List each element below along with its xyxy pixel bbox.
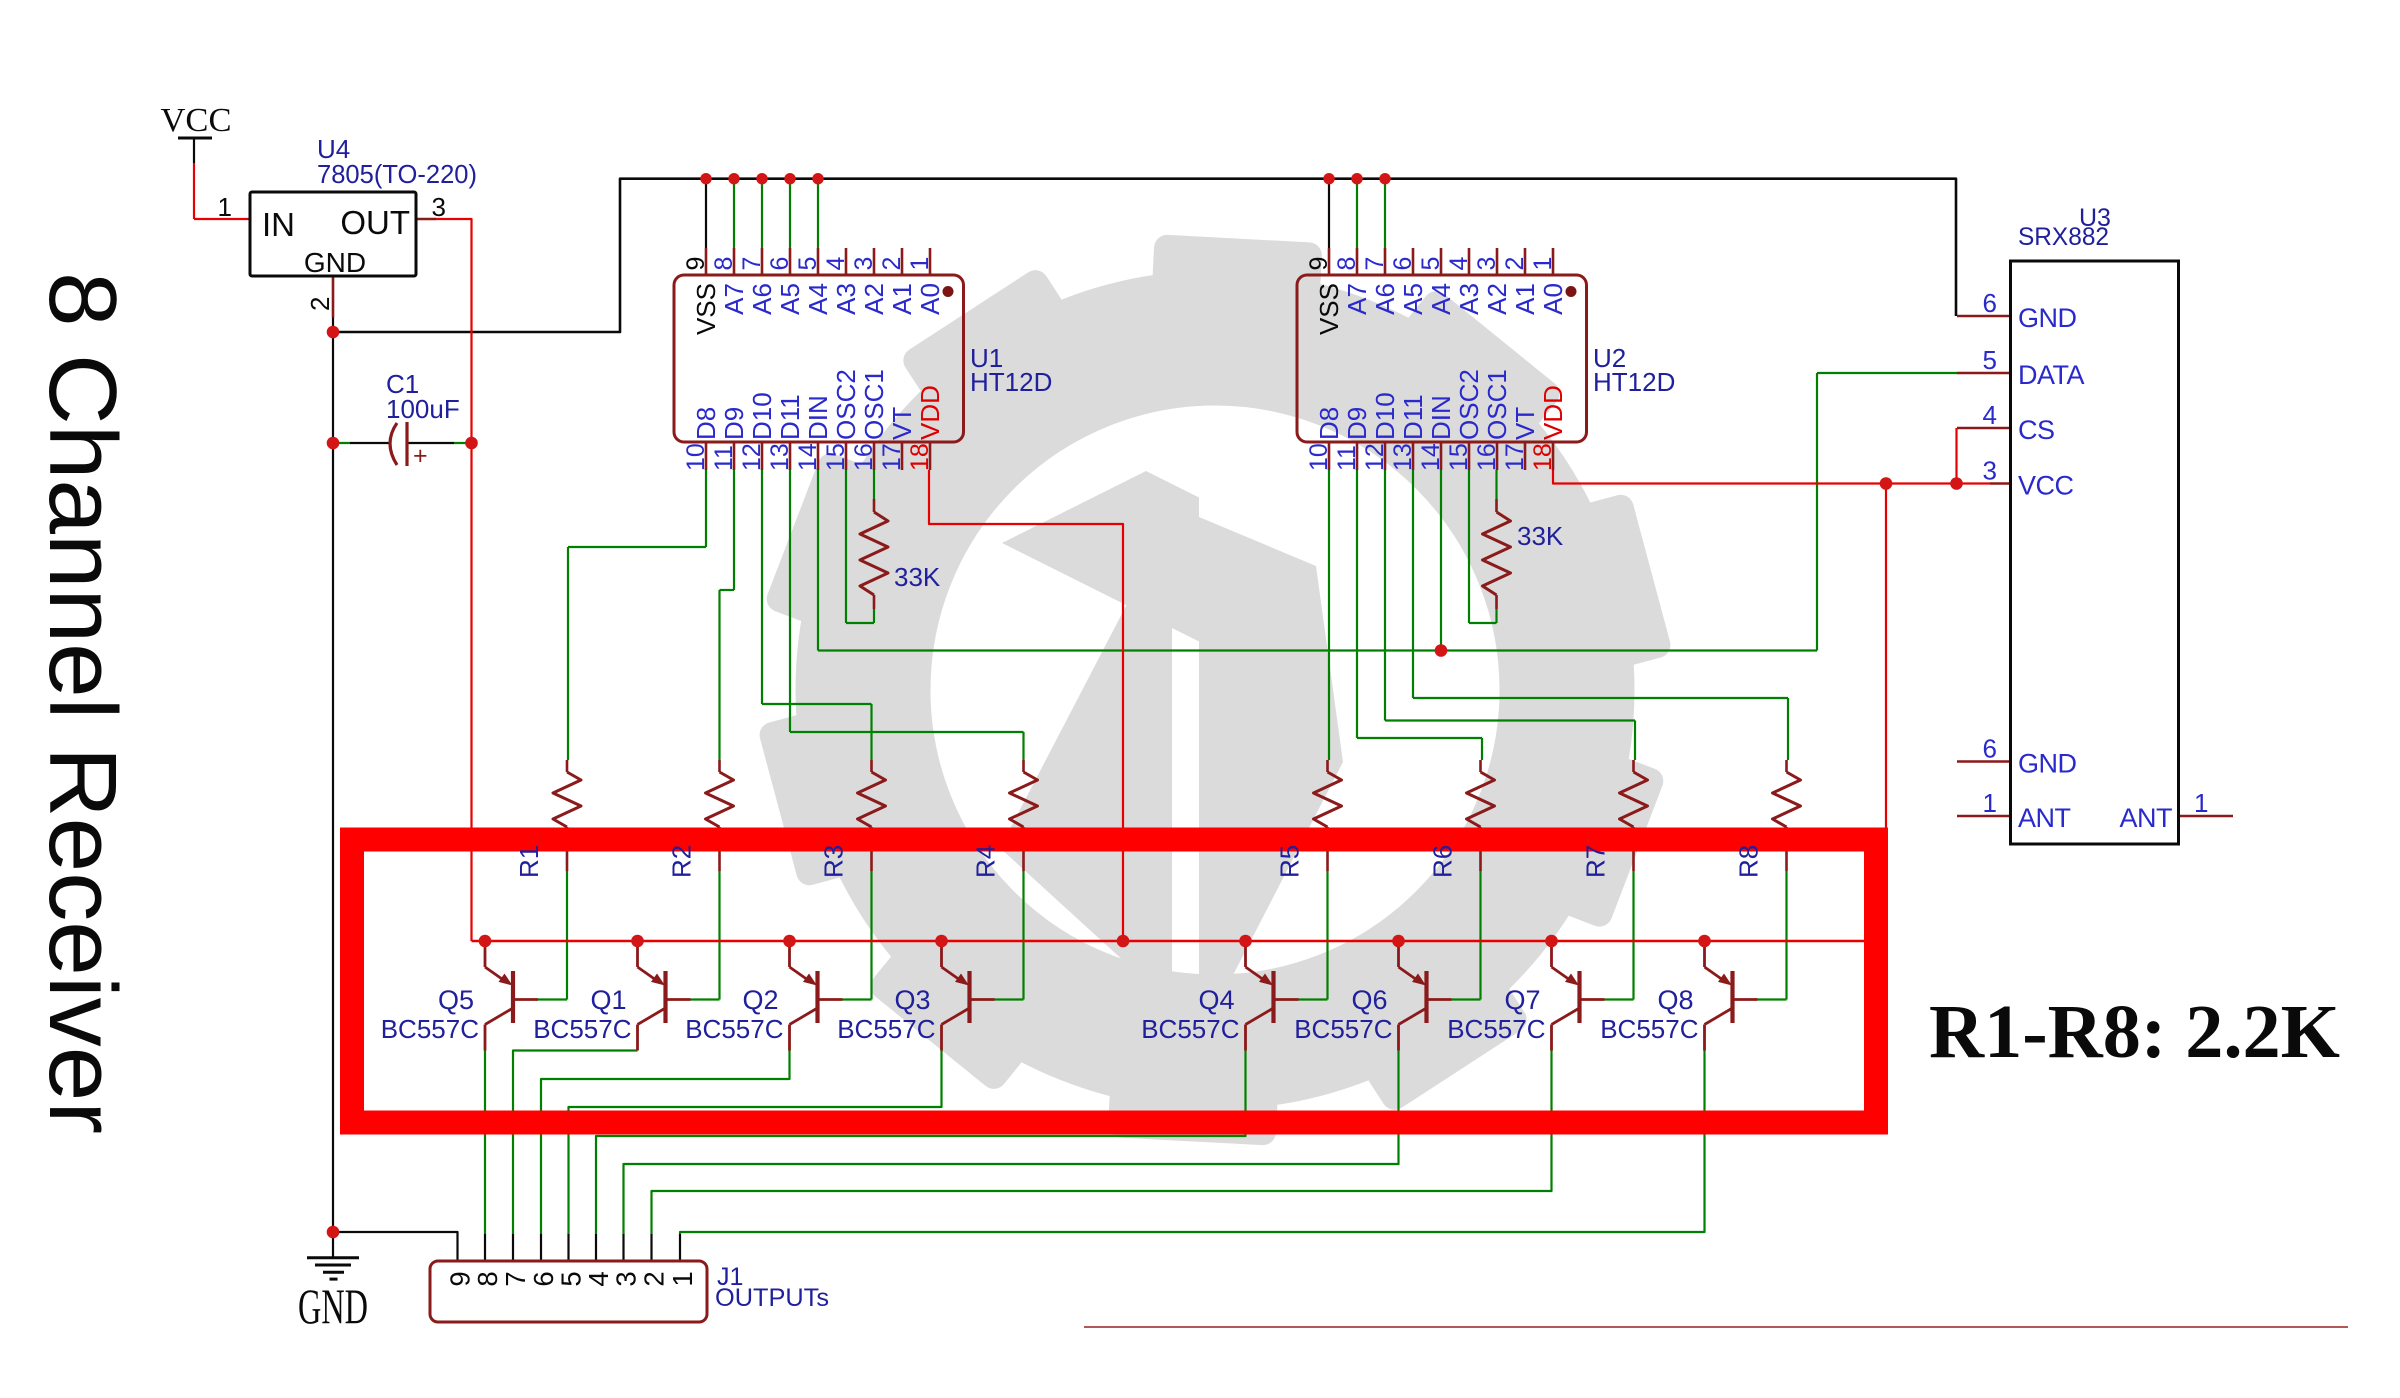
svg-text:Q6: Q6 bbox=[1351, 985, 1387, 1015]
svg-text:13: 13 bbox=[1389, 443, 1417, 471]
svg-text:4: 4 bbox=[1983, 400, 1997, 430]
svg-text:VCC: VCC bbox=[2018, 471, 2074, 501]
svg-text:OSC2: OSC2 bbox=[831, 369, 861, 440]
svg-text:7805(TO-220): 7805(TO-220) bbox=[317, 159, 477, 189]
svg-text:8 Channel Receiver: 8 Channel Receiver bbox=[29, 272, 136, 1134]
svg-text:D11: D11 bbox=[1398, 394, 1428, 440]
svg-text:1: 1 bbox=[1529, 257, 1557, 271]
svg-text:A6: A6 bbox=[747, 283, 777, 315]
svg-text:3: 3 bbox=[432, 192, 446, 222]
svg-text:18: 18 bbox=[906, 443, 934, 471]
svg-text:A3: A3 bbox=[1454, 283, 1484, 315]
svg-text:5: 5 bbox=[794, 257, 822, 271]
svg-text:12: 12 bbox=[1361, 443, 1389, 471]
svg-text:2: 2 bbox=[639, 1271, 670, 1286]
svg-text:1: 1 bbox=[218, 192, 232, 222]
svg-text:16: 16 bbox=[850, 443, 878, 471]
svg-text:GND: GND bbox=[298, 1278, 368, 1334]
svg-text:33K: 33K bbox=[1517, 521, 1564, 551]
svg-text:8: 8 bbox=[710, 257, 738, 271]
svg-text:ANT: ANT bbox=[2018, 803, 2071, 833]
svg-text:A6: A6 bbox=[1370, 283, 1400, 315]
svg-text:A7: A7 bbox=[1342, 283, 1372, 315]
svg-text:1: 1 bbox=[2194, 788, 2208, 818]
svg-text:6: 6 bbox=[1389, 257, 1417, 271]
svg-text:D9: D9 bbox=[1342, 407, 1372, 440]
svg-text:A0: A0 bbox=[1538, 283, 1568, 315]
svg-text:A4: A4 bbox=[1426, 283, 1456, 315]
svg-text:16: 16 bbox=[1473, 443, 1501, 471]
svg-text:IN: IN bbox=[262, 206, 295, 243]
svg-text:R4: R4 bbox=[971, 845, 1001, 878]
svg-text:14: 14 bbox=[794, 443, 822, 471]
svg-text:10: 10 bbox=[682, 443, 710, 471]
svg-text:3: 3 bbox=[611, 1271, 642, 1286]
svg-text:R3: R3 bbox=[819, 845, 849, 878]
svg-text:HT12D: HT12D bbox=[970, 367, 1052, 397]
svg-text:A2: A2 bbox=[859, 283, 889, 315]
svg-text:Q8: Q8 bbox=[1657, 985, 1693, 1015]
svg-text:GND: GND bbox=[2018, 303, 2077, 333]
svg-text:A5: A5 bbox=[1398, 283, 1428, 315]
svg-text:R5: R5 bbox=[1275, 845, 1305, 878]
svg-text:HT12D: HT12D bbox=[1593, 367, 1675, 397]
svg-text:12: 12 bbox=[738, 443, 766, 471]
svg-text:A1: A1 bbox=[887, 283, 917, 315]
svg-text:Q1: Q1 bbox=[590, 985, 626, 1015]
svg-text:DATA: DATA bbox=[2018, 360, 2084, 390]
svg-text:15: 15 bbox=[1445, 443, 1473, 471]
svg-text:2: 2 bbox=[878, 257, 906, 271]
svg-text:17: 17 bbox=[1501, 443, 1529, 471]
svg-text:2: 2 bbox=[305, 297, 335, 311]
svg-text:6: 6 bbox=[1983, 734, 1997, 764]
svg-text:3: 3 bbox=[1983, 456, 1997, 486]
svg-text:D8: D8 bbox=[1314, 407, 1344, 440]
svg-text:2: 2 bbox=[1501, 257, 1529, 271]
svg-text:D8: D8 bbox=[691, 407, 721, 440]
svg-text:OSC2: OSC2 bbox=[1454, 369, 1484, 440]
svg-text:Q4: Q4 bbox=[1198, 985, 1234, 1015]
svg-text:1: 1 bbox=[667, 1271, 698, 1286]
svg-text:VDD: VDD bbox=[915, 385, 945, 440]
svg-text:6: 6 bbox=[766, 257, 794, 271]
svg-text:A3: A3 bbox=[831, 283, 861, 315]
svg-text:7: 7 bbox=[500, 1271, 531, 1286]
svg-text:7: 7 bbox=[1361, 257, 1389, 271]
svg-text:A2: A2 bbox=[1482, 283, 1512, 315]
svg-text:11: 11 bbox=[1333, 445, 1361, 471]
svg-text:DIN: DIN bbox=[1426, 395, 1456, 440]
svg-text:11: 11 bbox=[710, 445, 738, 471]
svg-text:R6: R6 bbox=[1428, 845, 1458, 878]
svg-text:A1: A1 bbox=[1510, 283, 1540, 315]
svg-text:6: 6 bbox=[528, 1271, 559, 1286]
svg-text:8: 8 bbox=[1333, 257, 1361, 271]
svg-text:3: 3 bbox=[1473, 257, 1501, 271]
svg-text:DIN: DIN bbox=[803, 395, 833, 440]
svg-text:R1-R8: 2.2K: R1-R8: 2.2K bbox=[1929, 990, 2340, 1074]
svg-text:BC557C: BC557C bbox=[1141, 1014, 1239, 1044]
svg-text:6: 6 bbox=[1983, 288, 1997, 318]
svg-text:Q7: Q7 bbox=[1504, 985, 1540, 1015]
svg-text:VDD: VDD bbox=[1538, 385, 1568, 440]
svg-text:7: 7 bbox=[738, 257, 766, 271]
svg-text:BC557C: BC557C bbox=[837, 1014, 935, 1044]
svg-text:CS: CS bbox=[2018, 415, 2055, 445]
svg-text:D11: D11 bbox=[775, 394, 805, 440]
svg-text:BC557C: BC557C bbox=[685, 1014, 783, 1044]
svg-text:BC557C: BC557C bbox=[1294, 1014, 1392, 1044]
svg-text:VT: VT bbox=[1510, 407, 1540, 440]
svg-text:14: 14 bbox=[1417, 443, 1445, 471]
svg-text:4: 4 bbox=[822, 257, 850, 271]
svg-text:A0: A0 bbox=[915, 283, 945, 315]
svg-text:8: 8 bbox=[472, 1271, 503, 1286]
svg-text:13: 13 bbox=[766, 443, 794, 471]
svg-text:OSC1: OSC1 bbox=[1482, 369, 1512, 440]
svg-text:A5: A5 bbox=[775, 283, 805, 315]
svg-text:18: 18 bbox=[1529, 443, 1557, 471]
svg-text:R7: R7 bbox=[1581, 845, 1611, 878]
svg-text:SRX882: SRX882 bbox=[2018, 223, 2109, 251]
svg-text:BC557C: BC557C bbox=[1447, 1014, 1545, 1044]
svg-text:15: 15 bbox=[822, 443, 850, 471]
svg-text:VT: VT bbox=[887, 407, 917, 440]
svg-text:VSS: VSS bbox=[1314, 283, 1344, 335]
svg-text:D10: D10 bbox=[747, 392, 777, 440]
svg-text:3: 3 bbox=[850, 257, 878, 271]
svg-text:VSS: VSS bbox=[691, 283, 721, 335]
svg-text:R2: R2 bbox=[667, 845, 697, 878]
svg-text:BC557C: BC557C bbox=[1600, 1014, 1698, 1044]
svg-text:5: 5 bbox=[1417, 257, 1445, 271]
svg-text:GND: GND bbox=[2018, 749, 2077, 779]
svg-text:BC557C: BC557C bbox=[533, 1014, 631, 1044]
svg-text:Q3: Q3 bbox=[894, 985, 930, 1015]
svg-text:GND: GND bbox=[304, 247, 366, 278]
svg-text:9: 9 bbox=[682, 257, 710, 271]
svg-text:4: 4 bbox=[583, 1271, 614, 1286]
svg-text:1: 1 bbox=[1983, 788, 1997, 818]
svg-text:D10: D10 bbox=[1370, 392, 1400, 440]
svg-text:5: 5 bbox=[556, 1271, 587, 1286]
svg-text:9: 9 bbox=[445, 1271, 476, 1286]
svg-text:33K: 33K bbox=[894, 562, 941, 592]
svg-text:9: 9 bbox=[1305, 257, 1333, 271]
svg-text:5: 5 bbox=[1983, 345, 1997, 375]
svg-text:ANT: ANT bbox=[2120, 803, 2173, 833]
svg-text:Q2: Q2 bbox=[742, 985, 778, 1015]
svg-text:VCC: VCC bbox=[161, 102, 232, 139]
svg-text:R8: R8 bbox=[1734, 845, 1764, 878]
svg-text:4: 4 bbox=[1445, 257, 1473, 271]
svg-text:1: 1 bbox=[906, 257, 934, 271]
svg-text:OUTPUTs: OUTPUTs bbox=[715, 1284, 829, 1312]
svg-text:+: + bbox=[413, 442, 428, 470]
svg-text:A7: A7 bbox=[719, 283, 749, 315]
svg-text:R1: R1 bbox=[514, 845, 544, 878]
svg-text:10: 10 bbox=[1305, 443, 1333, 471]
svg-text:BC557C: BC557C bbox=[381, 1014, 479, 1044]
svg-text:Q5: Q5 bbox=[438, 985, 474, 1015]
svg-text:OSC1: OSC1 bbox=[859, 369, 889, 440]
svg-text:D9: D9 bbox=[719, 407, 749, 440]
svg-text:100uF: 100uF bbox=[386, 394, 460, 424]
svg-text:OUT: OUT bbox=[340, 204, 410, 241]
svg-text:17: 17 bbox=[878, 443, 906, 471]
svg-text:A4: A4 bbox=[803, 283, 833, 315]
